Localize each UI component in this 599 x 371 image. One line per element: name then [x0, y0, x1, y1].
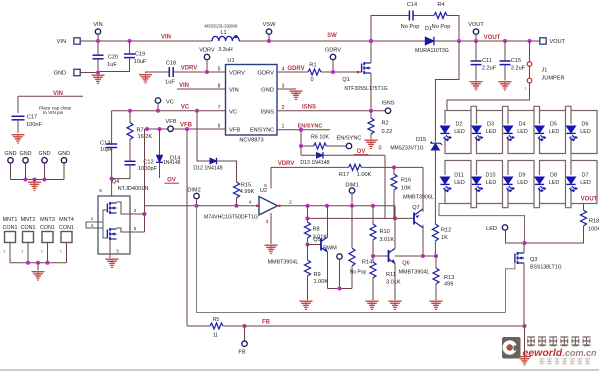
- wire Q4 source: [109, 240, 111, 258]
- resistor R6: [314, 143, 327, 149]
- node VOUT testpoint: [473, 29, 478, 34]
- junction VDRV: [205, 70, 209, 74]
- wire C18 to pin5: [173, 71, 225, 73]
- wire LED feed: [447, 83, 530, 111]
- svg-text:C13: C13: [100, 141, 110, 147]
- junction VC tp: [156, 109, 160, 113]
- resistor R1: [308, 69, 321, 75]
- svg-text:VOUT: VOUT: [550, 39, 566, 45]
- diode D12: [210, 158, 217, 165]
- ground MNT row: [32, 271, 45, 280]
- wire U2 gnd: [270, 213, 272, 244]
- junction R6 left: [299, 144, 303, 148]
- junction VSW: [267, 39, 271, 43]
- wire C14 branch: [371, 16, 459, 42]
- wire U2 input rail: [145, 205, 260, 207]
- capacitor C20: [93, 55, 104, 59]
- svg-text:LED: LED: [580, 129, 591, 135]
- wire C20 top: [97, 41, 99, 55]
- wire VDRV R17 rail: [271, 166, 423, 168]
- svg-text:GND: GND: [261, 88, 274, 94]
- wire GND terminal to C20: [80, 72, 98, 74]
- connector VOUT terminal: [540, 38, 546, 44]
- wire J1 top: [529, 41, 531, 62]
- svg-text:CON1: CON1: [59, 225, 74, 231]
- wire VIN rail: [80, 40, 212, 42]
- wire MNT1 stem: [9, 243, 11, 263]
- wire FB tp stem: [244, 326, 246, 341]
- wire Q3 drain: [523, 243, 525, 253]
- svg-text:VSW: VSW: [263, 22, 276, 28]
- wire C15 bottom: [504, 65, 506, 81]
- led D10 mask: [476, 175, 478, 187]
- wire U2 output rail: [278, 205, 396, 207]
- junction gnd bus b: [43, 178, 47, 182]
- resistor R10: [370, 224, 376, 240]
- svg-text:LED: LED: [454, 180, 465, 186]
- svg-text:1.00K: 1.00K: [314, 279, 329, 285]
- resistor R15: [234, 182, 240, 198]
- junction R15 bottom: [235, 204, 239, 208]
- svg-text:No Pop: No Pop: [401, 24, 420, 30]
- wire GND pin3: [277, 88, 296, 90]
- connector MNT3 CON1: [42, 232, 53, 243]
- wire LED loop rects row1: [445, 111, 597, 154]
- svg-text:R4: R4: [437, 2, 444, 8]
- node VDRV testpoint: [204, 54, 209, 59]
- svg-text:2: 2: [282, 105, 285, 111]
- junction Q5 collector: [325, 204, 329, 208]
- junction GDRV: [331, 70, 335, 74]
- svg-text:1.00K: 1.00K: [357, 172, 372, 178]
- wire Q5 emitter stem: [327, 252, 329, 289]
- watermark small text: [539, 359, 544, 364]
- svg-text:Q7: Q7: [412, 205, 419, 211]
- connector MNT4 CON1: [61, 232, 72, 243]
- wire VC to D12: [197, 111, 210, 161]
- wire GND testpoint 1 stem: [10, 163, 12, 180]
- svg-text:Q3: Q3: [530, 257, 537, 263]
- wire Q4 drain A: [117, 202, 145, 214]
- svg-text:L1: L1: [221, 30, 227, 36]
- node VSW testpoint: [266, 29, 271, 34]
- svg-text:0: 0: [379, 146, 382, 152]
- led D11 mask: [444, 175, 446, 187]
- svg-text:5: 5: [134, 226, 137, 231]
- svg-text:C11: C11: [482, 58, 492, 64]
- wire GND testpoint 4 stem: [63, 163, 65, 180]
- ground testpoint row: [28, 182, 41, 191]
- wire Q5 collector stem: [327, 206, 329, 237]
- led D8: [535, 177, 546, 192]
- wire GDRV stem: [332, 60, 334, 72]
- svg-text:MNT1: MNT1: [3, 217, 18, 223]
- svg-text:D3: D3: [487, 121, 494, 127]
- transistor Q6: [389, 249, 396, 264]
- wire C19 bottom: [98, 58, 130, 72]
- svg-text:C15: C15: [511, 58, 521, 64]
- wire GND testpoint 3 stem: [44, 163, 46, 180]
- svg-text:LED: LED: [517, 180, 528, 186]
- svg-text:R15: R15: [241, 183, 251, 189]
- wire D14 bottom: [159, 162, 161, 178]
- junction D1 out: [457, 39, 461, 43]
- svg-text:LED: LED: [580, 180, 591, 186]
- svg-text:D2: D2: [456, 121, 463, 127]
- svg-text:FB: FB: [238, 350, 245, 356]
- wire R9 bottom: [307, 276, 309, 300]
- svg-text:GND: GND: [5, 151, 17, 157]
- svg-text:Q6: Q6: [402, 261, 409, 267]
- svg-text:10K: 10K: [401, 186, 411, 192]
- capacitor C13: [106, 144, 117, 148]
- led D5: [535, 126, 546, 141]
- svg-text:10pF: 10pF: [100, 147, 113, 153]
- svg-text:VIN: VIN: [93, 22, 102, 28]
- junction DIM2: [195, 204, 199, 208]
- junction R7 top: [128, 109, 132, 113]
- led D2 mask: [444, 124, 446, 136]
- wire C12 bottom: [112, 165, 130, 179]
- connector J1 pin2: [527, 62, 532, 67]
- svg-text:4: 4: [249, 200, 252, 206]
- svg-text:VFB: VFB: [166, 119, 177, 125]
- junction R10 top: [371, 204, 375, 208]
- svg-text:100K: 100K: [588, 227, 599, 233]
- connector GND testpoint 1: [8, 158, 13, 163]
- transistor Q3 fet: [515, 252, 524, 264]
- svg-text:2.2uF: 2.2uF: [482, 66, 497, 72]
- wire VDRV stem: [206, 60, 208, 72]
- node DIM1 testpoint: [349, 188, 354, 193]
- svg-text:MMBT3904L: MMBT3904L: [399, 270, 430, 276]
- junction VFB FB: [185, 127, 189, 131]
- svg-text:GDRV: GDRV: [287, 66, 304, 72]
- wire R7 top: [129, 111, 131, 123]
- svg-text:DIM1: DIM1: [345, 182, 358, 188]
- svg-text:DIM2: DIM2: [187, 188, 200, 194]
- wire R6 right: [327, 145, 347, 147]
- svg-text:5: 5: [264, 183, 267, 189]
- wire J1 mid: [529, 66, 531, 78]
- svg-text:R5: R5: [213, 317, 220, 323]
- junction rail2 left: [306, 216, 310, 220]
- svg-text:PWM: PWM: [323, 246, 337, 252]
- svg-text:CON1: CON1: [21, 225, 36, 231]
- wire FB drop: [186, 129, 188, 326]
- wire R13 bottom: [435, 284, 437, 300]
- svg-text:4.99K: 4.99K: [240, 189, 255, 195]
- ground R2: [365, 140, 378, 149]
- svg-text:D4: D4: [519, 121, 526, 127]
- resistor R17: [349, 164, 362, 170]
- wire R6 left: [301, 145, 314, 147]
- wire C11 bottom: [475, 65, 477, 81]
- pin mark U2 output: [278, 205, 280, 207]
- node ENSYNC testpoint: [346, 143, 351, 148]
- led D3 mask: [476, 124, 478, 136]
- svg-text:C19: C19: [135, 52, 145, 58]
- svg-text:ISNS: ISNS: [381, 101, 394, 107]
- svg-text:C18: C18: [166, 61, 176, 67]
- svg-text:VIN: VIN: [179, 83, 189, 89]
- svg-text:R18: R18: [589, 219, 599, 225]
- svg-text:CON1: CON1: [40, 225, 55, 231]
- resistor R18: [581, 210, 587, 226]
- resistor R2: [368, 118, 374, 134]
- junction Q5 base: [306, 243, 310, 247]
- diode D14: [156, 155, 163, 162]
- svg-text:10uF: 10uF: [134, 59, 147, 65]
- led D7 mask: [570, 175, 572, 187]
- svg-text:3: 3: [266, 219, 269, 225]
- node VC testpoint: [155, 98, 160, 103]
- wire Q5 base: [308, 244, 322, 246]
- junction R16 top: [392, 165, 396, 169]
- svg-text:C20: C20: [108, 55, 118, 61]
- svg-text:1: 1: [282, 124, 285, 130]
- svg-text:7: 7: [218, 105, 221, 111]
- junction Q1 SW: [369, 39, 373, 43]
- ground Q4: [106, 259, 119, 268]
- svg-text:LED: LED: [486, 226, 497, 232]
- wire DIM2 stem: [196, 199, 198, 206]
- wire R14 top: [351, 206, 353, 248]
- svg-text:R11: R11: [386, 272, 396, 278]
- svg-text:D6: D6: [582, 121, 589, 127]
- svg-text:LED: LED: [454, 129, 465, 135]
- connector J1 pin1: [527, 78, 532, 83]
- wire Q5 bottom link: [328, 288, 353, 290]
- wire R2 bottom: [370, 134, 372, 139]
- junction VFB D14: [158, 127, 162, 131]
- svg-text:NCV8873: NCV8873: [239, 137, 263, 143]
- wire Q4 drain B: [117, 228, 145, 232]
- capacitor C17: [12, 116, 25, 120]
- svg-text:1uF: 1uF: [107, 62, 117, 68]
- wire D12 to R15: [217, 161, 237, 182]
- svg-text:R6 10K: R6 10K: [311, 135, 329, 141]
- svg-text:GND: GND: [54, 71, 66, 77]
- resistor R11: [370, 262, 376, 278]
- svg-text:C14: C14: [407, 2, 417, 8]
- svg-text:MNT2: MNT2: [21, 217, 36, 223]
- svg-text:GND: GND: [39, 151, 51, 157]
- junction R2 top: [369, 109, 373, 113]
- wire GND testpoint 2 stem: [25, 163, 27, 180]
- svg-text:LED: LED: [549, 180, 560, 186]
- watermark chinese title: [527, 337, 535, 346]
- op-amp U2 M74VHC1GT50DFT1G: [259, 197, 278, 216]
- svg-text:R13: R13: [444, 275, 454, 281]
- svg-text:GND: GND: [20, 151, 32, 157]
- resistor R5: [210, 323, 223, 329]
- node GDRV testpoint: [330, 54, 335, 59]
- svg-text:M74VHC1GT50DFT1G: M74VHC1GT50DFT1G: [204, 215, 258, 221]
- wire MNT2 stem: [27, 243, 29, 263]
- resistor R13: [433, 268, 439, 284]
- svg-text:EN/SYNC: EN/SYNC: [250, 127, 274, 133]
- junction rail2 right: [393, 216, 397, 220]
- connector GND terminal: [74, 69, 80, 75]
- svg-text:1: 1: [91, 216, 94, 221]
- svg-text:eeworld: eeworld: [523, 347, 563, 359]
- svg-text:R14: R14: [362, 260, 372, 266]
- svg-text:.com.cn: .com.cn: [563, 348, 598, 358]
- led D9 mask: [507, 175, 509, 187]
- svg-text:11: 11: [213, 333, 218, 339]
- node FB testpoint: [242, 341, 247, 346]
- resistor R14: [349, 248, 355, 266]
- ground Q6: [389, 301, 402, 310]
- svg-text:D13 1N4148: D13 1N4148: [300, 160, 329, 166]
- wire MNT3 stem: [47, 243, 49, 263]
- svg-text:ISNS: ISNS: [302, 104, 316, 110]
- ground Q3 source: [518, 356, 531, 365]
- svg-text:3.3uH: 3.3uH: [218, 47, 232, 53]
- svg-text:J1: J1: [542, 68, 548, 74]
- resistor R16: [391, 174, 397, 190]
- op-amp U1 NCV8873 body: [226, 65, 278, 136]
- capacitor C12: [125, 161, 136, 165]
- transistor Q4 NTJD4001N body: [98, 196, 130, 254]
- led D10: [472, 177, 483, 192]
- svg-text:VDRV: VDRV: [199, 48, 215, 54]
- bottom border line: [0, 369, 599, 371]
- junction Q4 pin2: [143, 212, 147, 216]
- svg-text:D9: D9: [519, 172, 526, 178]
- connector MNT1 CON1: [5, 232, 16, 243]
- svg-text:JUMPER: JUMPER: [542, 76, 565, 82]
- svg-text:SW: SW: [327, 33, 337, 39]
- connector GND testpoint 3: [42, 158, 47, 163]
- junction VOUT-C15: [503, 39, 507, 43]
- node ISNS testpoint: [385, 108, 390, 113]
- diode D15 MMSZ33VT1G: [430, 142, 442, 150]
- junction gnd bus a: [24, 178, 28, 182]
- junction R12 bottom: [434, 254, 438, 258]
- svg-text:R16: R16: [401, 178, 411, 184]
- svg-text:3.01K: 3.01K: [380, 237, 395, 243]
- resistor R12: [432, 224, 438, 241]
- diode D13: [317, 152, 324, 159]
- wire VIN testpoint stem: [97, 34, 99, 41]
- transistor Q5: [321, 237, 328, 252]
- svg-text:C17: C17: [27, 115, 37, 121]
- wire Q1 source: [370, 73, 372, 111]
- wire Q7 emitter: [422, 167, 424, 212]
- svg-text:D15: D15: [416, 137, 426, 143]
- wire DIM2 to Q3 gate: [197, 206, 506, 313]
- svg-text:1N4148: 1N4148: [163, 160, 181, 166]
- capacitor C14: [409, 11, 413, 21]
- wire C17 bottom: [17, 120, 19, 133]
- led D7: [566, 177, 577, 192]
- svg-text:VOUT: VOUT: [581, 197, 598, 203]
- junction mnt bus a: [26, 261, 30, 265]
- svg-text:MSS5131-332MX: MSS5131-332MX: [204, 23, 237, 28]
- svg-text:1uF: 1uF: [165, 80, 175, 86]
- led D4: [503, 126, 514, 141]
- wire C13 branch bottom: [111, 148, 113, 197]
- wire Q3 source gnd: [524, 326, 526, 356]
- wire VC rail: [112, 110, 226, 112]
- ground R9: [300, 301, 313, 310]
- wire OVP rail mid: [434, 150, 436, 224]
- connector GND testpoint 4: [61, 158, 66, 163]
- node VIN testpoint: [95, 29, 100, 34]
- wire LED row2 bridges: [471, 204, 571, 208]
- junction R8 drop: [306, 204, 310, 208]
- junction VIN-C20: [96, 39, 100, 43]
- junction VOUT-J1: [528, 39, 532, 43]
- junction Q6 base: [371, 254, 375, 258]
- svg-text:D11: D11: [454, 172, 464, 178]
- svg-text:MMSZ33VT1G: MMSZ33VT1G: [390, 146, 423, 152]
- svg-text:VDRV: VDRV: [278, 161, 295, 167]
- ground R11: [366, 301, 379, 310]
- svg-text:VIN: VIN: [57, 39, 66, 45]
- ground C18: [139, 74, 152, 83]
- wire R16 top: [393, 167, 395, 174]
- wire Q4 gate link: [103, 210, 107, 238]
- wire LED row1 bridges: [471, 106, 571, 110]
- led D5 mask: [539, 124, 541, 136]
- svg-text:VDRV: VDRV: [181, 66, 198, 72]
- wire U2 vcc: [270, 167, 272, 188]
- led D4 mask: [507, 124, 509, 136]
- svg-text:VC: VC: [166, 99, 174, 105]
- junction VFB left: [145, 127, 149, 131]
- svg-text:8: 8: [99, 188, 102, 193]
- wire collector rail: [395, 255, 436, 257]
- wire OVP rail top: [435, 41, 459, 142]
- ground input: [92, 75, 105, 84]
- svg-text:LED: LED: [486, 180, 497, 186]
- wire ISNS rail: [277, 110, 385, 112]
- wire ENSYNC pin1: [278, 129, 331, 131]
- svg-text:Q4: Q4: [112, 179, 119, 185]
- svg-text:R1: R1: [309, 63, 316, 69]
- wire C13 branch top: [111, 111, 113, 144]
- junction Q3 source FB: [523, 324, 527, 328]
- svg-text:0.22: 0.22: [382, 129, 393, 135]
- wire C19 top: [129, 41, 131, 54]
- wire VFB to Q4: [144, 129, 146, 232]
- ground C17: [12, 134, 25, 143]
- wire Q4 gate stub: [86, 222, 103, 228]
- wire FB rail: [187, 325, 525, 327]
- svg-text:VDRV: VDRV: [229, 71, 245, 77]
- svg-text:GDRV: GDRV: [325, 48, 341, 54]
- capacitor C11: [471, 61, 482, 65]
- svg-text:3.01K: 3.01K: [386, 280, 401, 286]
- wire VIN C17 branch: [18, 96, 83, 113]
- wire C15 top: [504, 41, 506, 61]
- svg-text:R10: R10: [380, 229, 390, 235]
- capacitor C19: [124, 54, 135, 58]
- resistor R4: [434, 13, 447, 19]
- wire LED tp stem: [506, 230, 525, 243]
- wire Q7 base rail: [308, 217, 414, 219]
- diode D1: [425, 37, 434, 46]
- wire R18 top: [583, 204, 585, 211]
- wire GDRV pin4: [277, 71, 362, 73]
- wire MNT bus: [10, 262, 67, 264]
- svg-text:4: 4: [91, 223, 94, 228]
- led D6: [566, 126, 577, 141]
- wire OV underline left: [165, 182, 180, 184]
